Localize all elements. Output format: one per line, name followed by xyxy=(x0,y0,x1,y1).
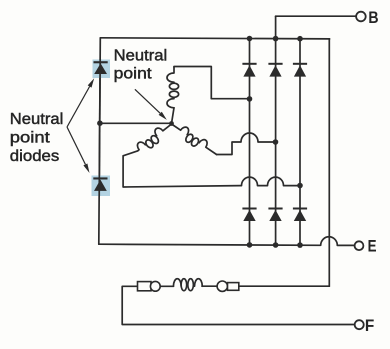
svg-text:point: point xyxy=(10,129,51,146)
diode D4 lower (column 1) xyxy=(242,208,256,222)
arrow to upper neutral diode xyxy=(67,78,94,127)
diode D6 lower (column 3) xyxy=(293,208,307,222)
brush box left xyxy=(138,282,152,291)
node bottom bus / column3 xyxy=(297,242,303,248)
wire phase A coil to star xyxy=(172,108,175,124)
wire phase C link to column 2 xyxy=(217,133,276,155)
slip ring left xyxy=(150,281,160,291)
diode D1 upper (column 1) xyxy=(242,63,256,77)
node phase C / column2 xyxy=(273,139,279,145)
node bottom bus / column1 xyxy=(247,242,253,248)
wire left neutral-diode column xyxy=(99,38,101,244)
svg-text:Neutral: Neutral xyxy=(114,48,168,65)
node star (neutral point) xyxy=(169,121,174,126)
wire B drop to top bus xyxy=(275,16,277,38)
highlight box lower neutral diode xyxy=(92,176,111,197)
wire right vertical (bus to field) xyxy=(328,39,330,286)
diode D3 upper (column 3) xyxy=(293,63,307,77)
wire rectifier column 2 xyxy=(275,39,277,245)
terminal F circle xyxy=(355,320,364,329)
winding phase A (top coil) xyxy=(167,67,179,108)
wire left column through highlight boxes xyxy=(99,59,100,196)
svg-text:B: B xyxy=(368,9,378,27)
wire B lead xyxy=(276,15,356,17)
wire rectifier column 3 xyxy=(299,39,301,245)
diode D2 upper (column 2) xyxy=(268,63,282,77)
wire rectifier column 1 xyxy=(249,39,251,245)
node neutral line / left column xyxy=(97,120,103,126)
svg-text:F: F xyxy=(365,317,374,335)
wire field right lead xyxy=(239,285,330,287)
wire field left lead, drop to F xyxy=(122,286,354,324)
svg-text:point: point xyxy=(114,66,153,83)
winding field coil (rotor) xyxy=(173,279,202,291)
wire phase B link to column 3 xyxy=(123,151,300,187)
diode D-neutral-upper xyxy=(94,61,108,74)
highlight box upper neutral diode xyxy=(93,60,111,79)
arrow to neutral point xyxy=(135,89,167,120)
node bottom bus / column2 xyxy=(273,242,279,248)
winding phase B (left coil) xyxy=(134,119,175,155)
terminal E circle xyxy=(355,241,364,250)
node phase A / column1 xyxy=(247,96,253,102)
wire top bus (B+) xyxy=(100,38,329,39)
svg-text:Neutral: Neutral xyxy=(10,111,64,128)
svg-text:diodes: diodes xyxy=(10,148,60,165)
node top bus / column3 xyxy=(297,36,303,42)
node phase B / column3 xyxy=(297,183,303,189)
wire bottom bus (E) with jump-over xyxy=(99,237,355,246)
terminal B circle xyxy=(356,12,366,22)
wire field between components xyxy=(151,285,229,287)
arrow to lower neutral diode xyxy=(67,127,90,173)
slip ring right xyxy=(217,281,227,291)
wire neutral line to star xyxy=(100,122,172,124)
svg-text:E: E xyxy=(368,237,377,255)
diode D-neutral-lower xyxy=(93,177,107,191)
wire phase A top link xyxy=(174,67,250,99)
diode D5 lower (column 2) xyxy=(268,208,282,222)
node top bus / column1 xyxy=(247,36,253,42)
brush box right xyxy=(228,283,239,291)
node top bus / column2 xyxy=(273,36,279,42)
winding phase C (right coil) xyxy=(168,119,220,159)
